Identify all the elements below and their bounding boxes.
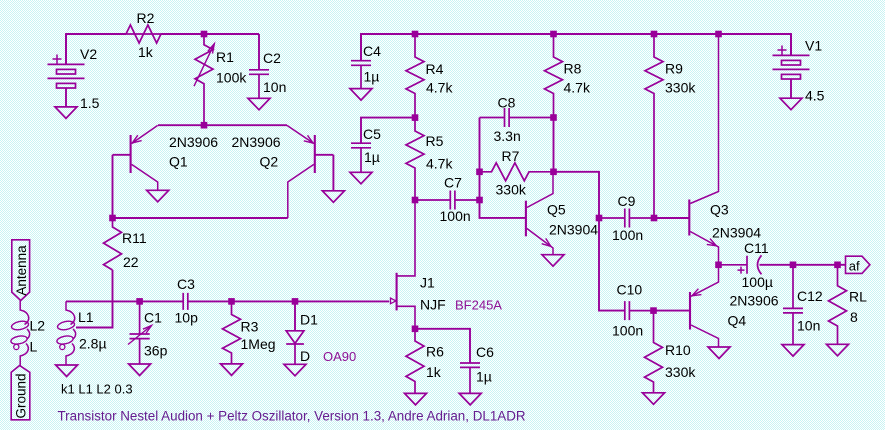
capacitor C7 [415, 191, 480, 210]
wire signal row right [188, 300, 389, 302]
label R9 [665, 61, 683, 77]
transistor Q2 (2N3906 PNP) [287, 125, 333, 218]
svg-text:8: 8 [850, 309, 858, 325]
label C1 [144, 310, 162, 326]
label C11 [744, 240, 769, 256]
value 22 [123, 254, 139, 270]
label J1 [420, 275, 435, 291]
svg-text:C5: C5 [363, 126, 381, 142]
value 8 [850, 309, 858, 325]
svg-text:C2: C2 [263, 50, 281, 66]
wire C9 to Q3 base [654, 217, 689, 219]
junction C9 right [651, 215, 658, 222]
svg-text:R2: R2 [137, 10, 155, 26]
value 10n [263, 79, 286, 95]
label Q3 [710, 202, 729, 218]
capacitor C10 [625, 301, 654, 320]
label Q2 [260, 154, 279, 170]
svg-text:Q2: Q2 [260, 154, 279, 170]
svg-text:C9: C9 [618, 193, 636, 209]
capacitor C11 (polarized 100u) [719, 255, 794, 274]
junction C7 left (node drain) [412, 197, 419, 204]
value 4.7k (R4) [426, 80, 453, 96]
ground below RL [827, 344, 849, 356]
label Q5 [547, 202, 566, 218]
svg-text:Ground: Ground [14, 373, 29, 418]
svg-text:R8: R8 [564, 61, 582, 77]
resistor RL [829, 265, 847, 345]
junction Q3 emitter [715, 262, 722, 269]
battery V2 [48, 34, 85, 107]
resistor R5 [406, 118, 424, 200]
ground below R6 [405, 393, 427, 405]
capacitor C4 [351, 34, 371, 89]
net flag Antenna [12, 240, 30, 301]
junction C7 right [476, 197, 483, 204]
junction R1 emitter rail [201, 122, 208, 129]
label R7 [502, 148, 520, 164]
value 1Meg [241, 336, 276, 352]
label C8 [498, 95, 516, 111]
svg-text:k1 L1 L2 0.3: k1 L1 L2 0.3 [61, 382, 133, 397]
junction D1 node [292, 298, 299, 305]
junction top rail R4 [412, 31, 419, 38]
label R4 [426, 61, 444, 77]
junction C1 node [136, 298, 143, 305]
svg-text:100k: 100k [216, 70, 247, 86]
transistor Q1 (2N3906 PNP) [113, 125, 158, 190]
junction top rail Q3 [715, 31, 722, 38]
junction C8 right [550, 114, 557, 121]
value 4.7k (R8) [564, 80, 591, 96]
svg-text:C4: C4 [363, 43, 381, 59]
value 330k (R9) [665, 80, 696, 96]
svg-text:R6: R6 [426, 344, 444, 360]
junction R7 right [550, 169, 557, 176]
label R10 [665, 342, 691, 358]
diode D1 (OA90) [286, 301, 304, 364]
junction top rail R9 [651, 31, 658, 38]
value 3.3n [494, 128, 521, 144]
capacitor C2 [249, 70, 269, 99]
svg-text:10p: 10p [175, 310, 199, 326]
svg-text:C8: C8 [498, 95, 516, 111]
svg-text:2N3906: 2N3906 [169, 134, 218, 150]
svg-text:36p: 36p [144, 343, 168, 359]
svg-text:L1: L1 [78, 309, 94, 325]
label D1 [300, 312, 318, 328]
value 330k (R7) [496, 182, 527, 198]
value 36p [144, 343, 168, 359]
svg-text:1k: 1k [138, 44, 154, 60]
junction top rail R8 [550, 31, 557, 38]
svg-text:3.3n: 3.3n [494, 128, 521, 144]
label C3 [177, 276, 195, 292]
net label Antenna [14, 245, 29, 296]
value 100k [216, 70, 247, 86]
svg-text:R1: R1 [216, 49, 234, 65]
capacitor C3 [183, 293, 188, 310]
label R1 [216, 49, 234, 65]
svg-text:1µ: 1µ [364, 149, 380, 165]
svg-text:100n: 100n [440, 208, 471, 224]
svg-text:1.5: 1.5 [80, 95, 100, 111]
value 100u [742, 274, 773, 290]
label C2 [263, 50, 281, 66]
svg-text:R9: R9 [665, 61, 683, 77]
svg-text:4.7k: 4.7k [564, 80, 591, 96]
resistor R2 [126, 25, 161, 43]
ground below R3 [221, 364, 243, 376]
wire V2 top to R2 [66, 34, 126, 64]
ground below V1 [780, 98, 802, 110]
inductor L1 [56, 301, 75, 365]
value BF245A [455, 298, 502, 313]
label 2N3906 (Q2) [232, 134, 281, 150]
svg-text:2N3906: 2N3906 [232, 134, 281, 150]
wire C12 node to RL node [793, 264, 838, 266]
svg-text:C3: C3 [177, 276, 195, 292]
value 1u (C6) [476, 369, 492, 385]
value 100n (C9) [612, 227, 643, 243]
net label af [849, 258, 860, 273]
net label L [30, 339, 38, 355]
svg-text:Q4: Q4 [728, 313, 747, 329]
svg-text:4.5: 4.5 [805, 88, 825, 104]
value 1k (R6) [426, 364, 442, 380]
label R3 [241, 319, 259, 335]
ground below C12 [782, 345, 804, 357]
label R8 [564, 61, 582, 77]
svg-text:Transistor Nestel Audion + Pel: Transistor Nestel Audion + Peltz Oszilla… [58, 409, 526, 424]
value 100n (C7) [440, 208, 471, 224]
resistor R3 [223, 301, 241, 364]
value OA90 [323, 349, 356, 364]
svg-text:Q1: Q1 [169, 154, 188, 170]
ground below Q5 [542, 255, 564, 267]
ground below Q2 base [322, 191, 344, 203]
ground below C4 [350, 89, 372, 101]
value 10n (C12) [797, 318, 820, 334]
label 2N3906 (Q4) [730, 293, 779, 309]
svg-text:4.7k: 4.7k [426, 80, 453, 96]
value 4.7k (R5) [426, 156, 453, 172]
battery V1 [773, 34, 810, 98]
net label Ground [14, 373, 29, 418]
svg-text:R10: R10 [665, 342, 691, 358]
label Q1 [169, 154, 188, 170]
value 100n (C10) [612, 323, 643, 339]
svg-text:C12: C12 [797, 288, 823, 304]
svg-text:R5: R5 [426, 133, 444, 149]
svg-text:100n: 100n [612, 323, 643, 339]
junction R3 node [228, 298, 235, 305]
ground below L1 [56, 365, 78, 377]
svg-text:1µ: 1µ [364, 69, 380, 85]
resistor R4 [406, 34, 424, 118]
ground below R10 [643, 393, 665, 405]
svg-text:1Meg: 1Meg [241, 336, 276, 352]
net flag Ground [11, 366, 30, 420]
svg-text:BF245A: BF245A [455, 298, 502, 313]
label R2 [137, 10, 155, 26]
wire RL node to af flag [838, 264, 846, 266]
value 4.5 [805, 88, 825, 104]
wire node A down to C2 [258, 34, 260, 70]
svg-text:R7: R7 [502, 148, 520, 164]
svg-text:C6: C6 [476, 344, 494, 360]
label V1 [805, 38, 822, 54]
junction R11 node [109, 215, 116, 222]
resistor R9 [645, 34, 663, 218]
svg-text:330k: 330k [665, 80, 696, 96]
svg-text:V1: V1 [805, 38, 822, 54]
svg-text:2N3904: 2N3904 [549, 222, 598, 238]
resistor R7 [480, 163, 554, 181]
resistor R8 [545, 34, 563, 118]
label RL [849, 289, 867, 305]
value 1u (C4) [364, 69, 380, 85]
capacitor C1 (variable 36p) [128, 301, 152, 364]
capacitor C6 [460, 363, 480, 393]
svg-text:2.8µ: 2.8µ [79, 336, 107, 352]
svg-text:D1: D1 [300, 312, 318, 328]
svg-text:4.7k: 4.7k [426, 156, 453, 172]
label C9 [618, 193, 636, 209]
transistor Q3 (2N3904 NPN) [689, 34, 718, 265]
svg-text:af: af [849, 258, 860, 273]
label NJF [420, 297, 446, 313]
svg-text:Antenna: Antenna [14, 245, 29, 296]
label 2N3904 (Q3) [712, 225, 761, 241]
wire R11 to L1 tap [76, 270, 113, 328]
label R11 [122, 230, 147, 246]
label L2 [30, 318, 46, 334]
directive k1 L1 L2 0.3 [61, 382, 133, 397]
svg-text:R3: R3 [241, 319, 259, 335]
svg-text:C11: C11 [744, 240, 769, 256]
svg-text:C7: C7 [444, 175, 462, 191]
ground below Q1 collector [147, 190, 169, 202]
svg-text:C10: C10 [617, 282, 643, 298]
ground below Q4 [708, 347, 730, 359]
label C5 [363, 126, 381, 142]
svg-text:330k: 330k [665, 364, 696, 380]
svg-text:330k: 330k [496, 182, 527, 198]
value 330k (R10) [665, 364, 696, 380]
svg-text:R11: R11 [122, 230, 147, 246]
junction node A top rail [201, 31, 208, 38]
wire Q2 base to ground [332, 155, 334, 191]
junction C12 node [790, 262, 797, 269]
resistor R6 [406, 329, 424, 394]
ground below C5 [350, 172, 372, 184]
label C6 [476, 344, 494, 360]
wire signal row left [66, 300, 183, 302]
resistor R10 [645, 311, 663, 393]
svg-text:100µ: 100µ [742, 274, 773, 290]
svg-text:1k: 1k [426, 364, 442, 380]
ground below C6 [459, 393, 481, 405]
net flag af [846, 256, 870, 273]
ground below C1 [129, 364, 151, 376]
label C12 [797, 288, 823, 304]
svg-text:D: D [300, 348, 310, 364]
resistor R11 [104, 218, 122, 270]
svg-text:Q5: Q5 [547, 202, 566, 218]
wire source node to C6 [415, 329, 470, 363]
net label D [300, 348, 310, 364]
wire R7 node to C9 column [554, 172, 625, 311]
wire emitter rail [158, 124, 287, 126]
label C10 [617, 282, 643, 298]
ground below C2 [248, 98, 270, 110]
label L1 [78, 309, 94, 325]
value 2.8u [79, 336, 107, 352]
capacitor C9 [599, 209, 654, 228]
svg-text:Q3: Q3 [710, 202, 729, 218]
label C7 [444, 175, 462, 191]
value 10p [175, 310, 199, 326]
title text [58, 409, 526, 424]
inductor L2 [10, 301, 29, 366]
label Q4 [728, 313, 747, 329]
wire R8 column down [553, 118, 555, 172]
svg-text:V2: V2 [80, 46, 97, 62]
wire Q1 base down [112, 155, 114, 218]
jfet J1 (NJF BF245A) [391, 200, 416, 329]
svg-text:NJF: NJF [420, 297, 446, 313]
capacitor C8 [480, 108, 554, 127]
svg-text:J1: J1 [420, 275, 435, 291]
svg-text:RL: RL [849, 289, 867, 305]
junction J1 source [412, 326, 419, 333]
svg-text:2N3906: 2N3906 [730, 293, 779, 309]
capacitor C5 [351, 143, 371, 172]
svg-text:22: 22 [123, 254, 139, 270]
junction C9 left [596, 215, 603, 222]
junction R7 left [476, 169, 483, 176]
label C4 [363, 43, 381, 59]
svg-text:L2: L2 [30, 318, 46, 334]
capacitor C12 [783, 265, 803, 345]
resistor R1 (variable) [194, 34, 214, 125]
svg-text:OA90: OA90 [323, 349, 356, 364]
svg-text:R4: R4 [426, 61, 444, 77]
transistor Q4 (2N3906 PNP) [690, 265, 719, 347]
ground below V2 [55, 107, 77, 119]
junction C10 right [650, 307, 657, 314]
wire R2 to node A [161, 33, 259, 35]
label R5 [426, 133, 444, 149]
svg-text:2N3904: 2N3904 [712, 225, 761, 241]
svg-text:100n: 100n [612, 227, 643, 243]
value 1k [138, 44, 154, 60]
wire bottom rail Q1 base to Q2 collector [113, 217, 288, 219]
svg-text:10n: 10n [263, 79, 286, 95]
junction RL node [834, 262, 841, 269]
label V2 [80, 46, 97, 62]
svg-text:C1: C1 [144, 310, 162, 326]
label 2N3906 (Q1) [169, 134, 218, 150]
value 1u (C5) [364, 149, 380, 165]
wire top rail right [361, 34, 791, 61]
wire left column C8-R7-C7 [480, 118, 526, 218]
junction R4 R5 C5 [412, 114, 419, 121]
svg-text:1µ: 1µ [476, 369, 492, 385]
wire C10 to Q4 base [654, 310, 691, 312]
label R6 [426, 344, 444, 360]
value 1.5 [80, 95, 100, 111]
label 2N3904 (Q5) [549, 222, 598, 238]
svg-text:L: L [30, 339, 38, 355]
svg-text:10n: 10n [797, 318, 820, 334]
transistor Q5 (2N3904 NPN) [526, 172, 553, 255]
wire to C5 [361, 118, 415, 144]
ground below D1 [284, 364, 306, 376]
